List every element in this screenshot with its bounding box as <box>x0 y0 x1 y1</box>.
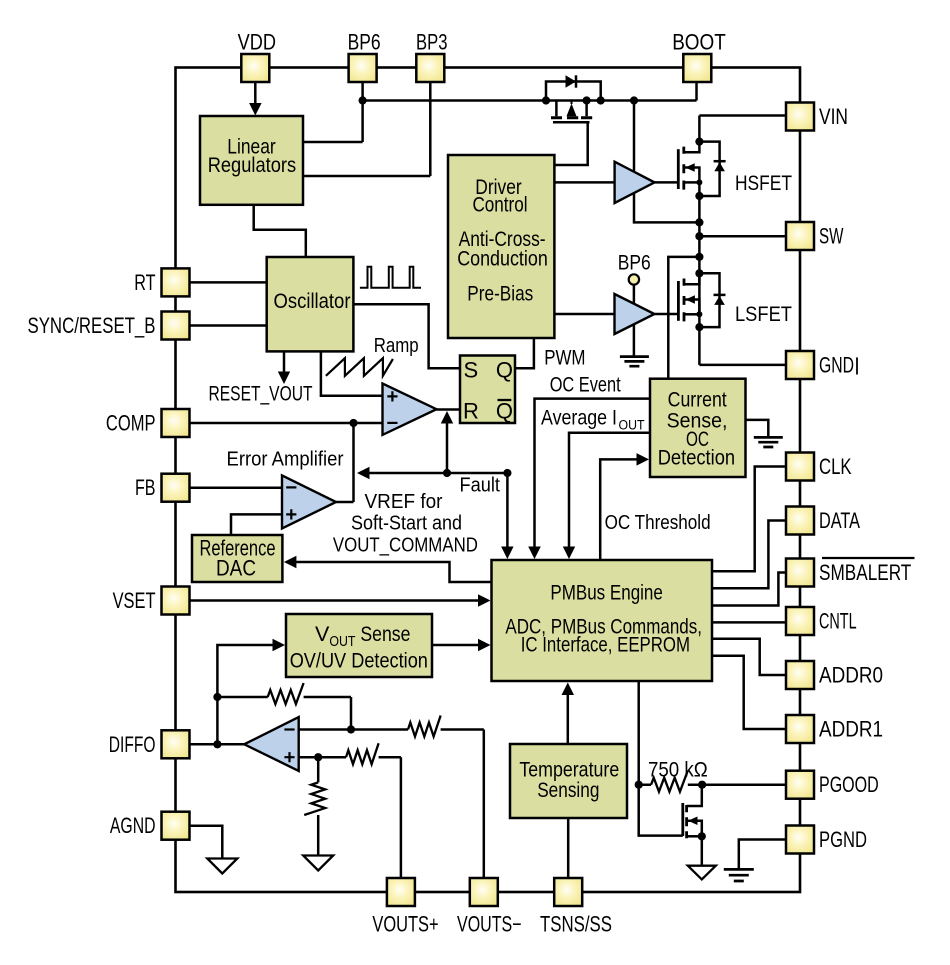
resistor R1 feedback <box>268 683 304 704</box>
pin COMP <box>162 409 190 437</box>
junction current sense tap <box>695 253 703 261</box>
svg-text:VIN: VIN <box>819 104 848 129</box>
pin BP3 <box>416 54 444 82</box>
svg-text:Pre-Bias: Pre-Bias <box>467 283 533 306</box>
junction Fault corner <box>503 469 511 477</box>
pin ADDR0 <box>786 661 814 689</box>
transistor Q4 PGOOD pulldown <box>681 803 684 836</box>
svg-text:COMP: COMP <box>106 411 156 436</box>
wire feedback resistor to minus input <box>304 697 351 730</box>
junction boot diode right <box>597 96 605 104</box>
junction DIFFO feedback <box>213 740 221 748</box>
wire PMBus to 750k node <box>637 681 640 785</box>
transistor Q2 HSFET <box>677 149 680 189</box>
resistor R2 to VOUTS- <box>408 716 441 737</box>
wire COMP to comparator minus <box>190 422 383 425</box>
pin VSET <box>162 587 190 615</box>
ground right of Current Sense <box>754 437 783 447</box>
junction LSFET drain-diode <box>695 269 703 277</box>
ground below LS driver <box>620 357 649 367</box>
svg-text:VOUTS+: VOUTS+ <box>372 912 438 937</box>
junction SW node top <box>695 218 703 226</box>
pin VDD <box>241 54 269 82</box>
pin DIFFO <box>162 730 190 758</box>
wire OC Event <box>535 399 651 547</box>
svg-text:DATA: DATA <box>819 508 860 533</box>
resistor R3 to VOUTS+ <box>346 743 379 764</box>
wire Fault net <box>368 472 507 475</box>
wire PMBus to ADDR1 pin <box>712 656 786 729</box>
wire VOUT Sense output to PMBus <box>432 644 479 647</box>
junction SW pin tap <box>695 232 703 240</box>
transistor Q3 LSFET <box>677 281 680 321</box>
svg-text:VREF for: VREF for <box>365 491 443 513</box>
svg-text:CNTL: CNTL <box>819 609 857 634</box>
wire PMBus to SMBALERT pin <box>712 573 786 606</box>
wire PMBus to CLK pin <box>712 467 786 572</box>
wire HS driver bottom to SW node <box>634 193 699 223</box>
op-amp U6 difference amplifier <box>244 717 299 771</box>
svg-text:FB: FB <box>135 475 156 500</box>
svg-text:OC Event: OC Event <box>550 374 621 397</box>
junction Q4 source <box>698 832 706 840</box>
ground analog below Q4 <box>688 866 716 880</box>
wire DIFFO node to VOUT Sense input <box>217 645 274 744</box>
pin ADDR1 <box>786 715 814 743</box>
pin SMBALERT <box>786 559 814 587</box>
svg-text:LSFET: LSFET <box>735 303 792 326</box>
resistor R4 divider to ground <box>304 782 325 815</box>
svg-text:Oscillator: Oscillator <box>274 290 351 313</box>
pin AGND <box>162 812 190 840</box>
wire diff amp minus line <box>299 728 408 731</box>
svg-text:Average I: Average I <box>541 407 617 430</box>
svg-text:VOUTS−: VOUTS− <box>457 912 522 937</box>
diff amp plus sign <box>284 752 294 762</box>
pin SW <box>786 222 814 250</box>
wire LS driver output to LSFET gate <box>654 313 678 316</box>
svg-text:CLK: CLK <box>819 454 852 479</box>
svg-text:VOUT_COMMAND: VOUT_COMMAND <box>333 535 478 557</box>
wire SYNC/RESET_B to Oscillator <box>190 324 267 327</box>
svg-text:R: R <box>463 399 479 424</box>
pin CLK <box>786 453 814 481</box>
junction plus input divider <box>314 753 322 761</box>
svg-text:PGND: PGND <box>819 827 867 852</box>
wire Average IOUT <box>569 433 650 547</box>
block Current Sense OC Detection <box>650 379 746 477</box>
diode D1 boot <box>566 75 577 87</box>
svg-text:VOUT Sense: VOUT Sense <box>315 622 410 650</box>
comparator U4 PWM <box>383 384 437 435</box>
svg-text:750 kΩ: 750 kΩ <box>648 759 708 782</box>
junction HSFET body tie <box>696 179 702 185</box>
wire Linear Regulators to BP3 net <box>303 82 430 176</box>
ground earth at PGND <box>724 869 754 881</box>
wire error amp output to COMP net <box>336 423 354 502</box>
svg-text:TSNS/SS: TSNS/SS <box>540 912 612 937</box>
svg-text:PMBus Engine: PMBus Engine <box>550 580 663 604</box>
junction boot diode left <box>542 96 550 104</box>
buffer U3 LS gate driver <box>615 294 655 334</box>
svg-text:GND: GND <box>819 353 854 378</box>
svg-text:PWM: PWM <box>544 347 585 370</box>
junction minus input <box>347 725 355 733</box>
svg-text:VSET: VSET <box>113 588 156 613</box>
pin VOUTS+ <box>387 878 415 906</box>
ground analog below divider <box>303 856 333 871</box>
junction HSFET source-diode <box>695 192 703 200</box>
wire FB to error amp minus <box>190 486 283 489</box>
wire boot diode branch <box>546 82 601 101</box>
wire 750k stubs <box>639 783 702 786</box>
junction 750k right <box>698 781 706 789</box>
svg-text:ADDR1: ADDR1 <box>819 717 883 742</box>
wire Linear Regulators to BP6 net <box>303 82 363 142</box>
wire LSFET source to GND pin <box>699 364 786 367</box>
block Temperature Sensing <box>510 744 627 818</box>
wire SW node vertical <box>698 182 701 365</box>
diode D2 HSFET body <box>699 142 719 196</box>
overline SMBALERT <box>822 557 915 559</box>
junction BP6 rail <box>359 96 367 104</box>
svg-text:HSFET: HSFET <box>735 172 792 195</box>
wire Oscillator ramp to comparator <box>321 351 383 395</box>
block VOUT Sense OV/UV <box>286 614 432 677</box>
junction LSFET body tie <box>696 311 702 317</box>
junction feedback top <box>213 693 221 701</box>
resistor R5 750k <box>651 771 688 792</box>
wire PGND to ground <box>739 840 786 870</box>
wire latch Q to Driver Control PWM <box>515 338 534 368</box>
svg-text:Ramp: Ramp <box>374 335 419 357</box>
svg-text:Current: Current <box>668 389 727 412</box>
svg-text:OUT: OUT <box>619 418 645 433</box>
wire Driver Control to LS driver <box>554 313 614 316</box>
wire DAC to error amp plus <box>231 514 282 535</box>
pin FB <box>162 474 190 502</box>
clock waveform symbol <box>360 267 421 288</box>
wire HSFET drain to VIN <box>699 114 786 117</box>
svg-text:Error Amplifier: Error Amplifier <box>227 449 344 471</box>
svg-text:Detection: Detection <box>658 447 735 470</box>
comparator plus sign <box>387 391 397 401</box>
svg-text:ADDR0: ADDR0 <box>819 663 883 688</box>
wire PMBus VREF to Reference DAC <box>295 562 492 582</box>
junction HSFET drain-diode <box>695 138 703 146</box>
junction Fault to R line branch <box>443 469 451 477</box>
svg-text:PGOOD: PGOOD <box>819 772 879 797</box>
wire 750k to PGOOD pin <box>702 783 786 786</box>
pin RT <box>162 268 190 296</box>
pin TSNS/SS <box>554 878 582 906</box>
svg-text:SW: SW <box>819 224 844 249</box>
wire boot rail into HS driver top <box>633 101 636 172</box>
diode D3 LSFET body <box>699 273 719 327</box>
wire PMBus to ADDR0 pin <box>712 639 786 675</box>
wire Driver Control to HS driver <box>554 181 614 184</box>
junction COMP error amp output <box>349 419 357 427</box>
wire comparator output to latch R <box>437 408 461 411</box>
pin BOOT <box>683 54 711 82</box>
junction LSFET source-diode <box>695 323 703 331</box>
wire diff amp plus line <box>299 756 346 759</box>
wire resistor to VOUTS- pin <box>441 730 484 879</box>
wire PMBus to CNTL pin <box>712 621 786 624</box>
svg-text:Q: Q <box>496 358 513 383</box>
svg-text:Control: Control <box>472 193 527 216</box>
svg-text:BOOT: BOOT <box>672 30 726 55</box>
ground analog below AGND <box>207 859 237 874</box>
error amp plus sign <box>286 509 296 519</box>
pin BP6 <box>349 54 377 82</box>
pin PGOOD <box>786 771 814 799</box>
block Linear Regulators <box>200 116 303 205</box>
wire diff amp output to DIFFO <box>190 743 245 746</box>
op-amp U5 error amplifier <box>282 475 336 528</box>
wire OC Threshold <box>600 459 638 560</box>
svg-text:SMBALERT: SMBALERT <box>819 560 911 585</box>
wire PMBus to DATA pin <box>712 521 786 589</box>
wire TSNS/SS pin to Temperature Sensing <box>567 818 570 878</box>
svg-text:Soft-Start and: Soft-Start and <box>351 513 462 535</box>
svg-text:Q: Q <box>496 399 513 424</box>
pin VOUTS− <box>470 878 498 906</box>
svg-text:VDD: VDD <box>238 30 276 55</box>
junction boot fet right stub <box>583 96 591 104</box>
pin PGND <box>786 826 814 854</box>
pin VIN <box>786 103 814 131</box>
junction 750k left <box>635 781 643 789</box>
ramp sawtooth symbol <box>326 358 393 376</box>
svg-text:DAC: DAC <box>216 556 256 581</box>
wire AGND to ground <box>190 826 223 858</box>
pin GND <box>786 351 814 379</box>
pin DATA <box>786 507 814 535</box>
svg-text:Sensing: Sensing <box>537 779 599 802</box>
wire VDD arrow to Linear Regulators <box>254 82 257 104</box>
svg-text:DIFFO: DIFFO <box>109 732 156 757</box>
diff amp minus sign <box>284 728 294 730</box>
pin CNTL <box>786 607 814 635</box>
pin SYNC/RESET_B <box>162 312 190 340</box>
chip outline border <box>176 68 801 893</box>
label GND cursor artifact <box>856 357 858 374</box>
wire plus input to divider resistor <box>317 757 320 855</box>
block Oscillator <box>267 257 354 351</box>
wire RT to Oscillator <box>190 281 267 284</box>
svg-text:RT: RT <box>134 270 155 295</box>
svg-text:OV/UV Detection: OV/UV Detection <box>290 649 428 673</box>
block Reference DAC <box>192 535 282 582</box>
wire Current Sense to ground <box>746 420 769 437</box>
wire resistor to VOUTS+ pin <box>379 757 401 878</box>
svg-text:RESET_VOUT: RESET_VOUT <box>209 383 313 406</box>
terminal BP6 circle <box>629 274 639 284</box>
wire VSET to PMBus <box>190 599 480 602</box>
comparator minus sign <box>387 422 397 424</box>
buffer U2 HS gate driver <box>615 162 655 203</box>
block PMBus Engine <box>492 560 713 681</box>
wire HS driver output to HSFET gate <box>655 181 679 184</box>
svg-text:BP3: BP3 <box>416 30 448 55</box>
svg-text:AGND: AGND <box>110 813 156 838</box>
transistor Q1 boot switch <box>556 101 586 117</box>
wire Oscillator output to latch S <box>353 304 460 368</box>
svg-text:Conduction: Conduction <box>457 248 548 271</box>
wire PMBus line to Q4 gate <box>639 785 683 836</box>
wire SW node to SW pin <box>699 235 786 238</box>
svg-text:S: S <box>464 358 479 383</box>
wire feedback to resistor <box>217 696 267 699</box>
wire RESET_VOUT arrow <box>283 351 286 373</box>
svg-text:BP6: BP6 <box>618 252 651 275</box>
svg-text:Fault: Fault <box>460 475 501 497</box>
svg-text:Regulators: Regulators <box>208 153 296 177</box>
wire BP6 circle to LS driver top <box>633 285 636 304</box>
wire Temperature Sensing to PMBus <box>567 687 570 744</box>
svg-text:IC Interface, EEPROM: IC Interface, EEPROM <box>521 633 690 657</box>
wire Q4 source to ground <box>701 836 704 865</box>
wire LS driver bottom to ground <box>633 324 636 356</box>
svg-text:OC Threshold: OC Threshold <box>605 512 711 534</box>
wire boot rail BP6 to BOOT <box>363 82 697 101</box>
block latch SR <box>460 356 515 424</box>
junction boot rail to HS driver <box>630 96 638 104</box>
wire Linear Regulators bottom to Oscillator top <box>254 205 306 257</box>
error amp minus sign <box>286 486 296 488</box>
block Driver Control <box>448 155 554 338</box>
svg-text:SYNC/RESET_B: SYNC/RESET_B <box>28 313 156 338</box>
wire Q1 gate to Driver Control <box>554 122 587 165</box>
wire SW node to Current Sense <box>668 257 699 379</box>
svg-text:BP6: BP6 <box>348 30 381 55</box>
